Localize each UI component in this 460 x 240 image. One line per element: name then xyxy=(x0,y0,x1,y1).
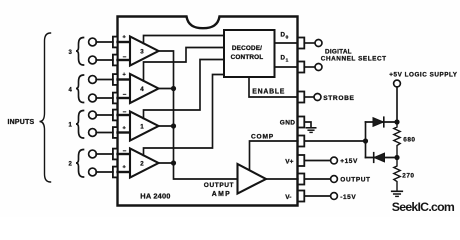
svg-text:2: 2 xyxy=(69,162,73,168)
wire decode to D1 pin xyxy=(275,66,298,68)
wire pin to amp 4 + xyxy=(118,78,131,80)
brace channel 1 xyxy=(76,111,84,139)
wire select line amp2 to decode xyxy=(144,75,225,156)
wire V- pin to terminal xyxy=(304,195,330,197)
terminal -15V xyxy=(331,193,338,200)
junction upper branch at resistor xyxy=(394,119,399,124)
wire input 3 bottom xyxy=(96,59,113,61)
op-amp IC HA 2400 package outline xyxy=(118,17,298,206)
svg-text:OUTPUT: OUTPUT xyxy=(340,177,370,184)
junction COMP clamp xyxy=(363,138,368,143)
svg-text:3: 3 xyxy=(140,49,144,56)
svg-text:4: 4 xyxy=(140,86,144,93)
wire COMP pin to clamp junction xyxy=(304,140,365,142)
ground at GND pin xyxy=(306,127,315,129)
wire +5V to clamp xyxy=(396,87,398,122)
svg-text:1: 1 xyxy=(140,124,144,131)
svg-text:DECODE/: DECODE/ xyxy=(232,45,262,52)
diode upper (to +5V) xyxy=(373,118,384,127)
svg-text:AMP: AMP xyxy=(212,191,231,198)
svg-text:+: + xyxy=(123,165,127,171)
svg-text:–: – xyxy=(123,54,127,61)
output amplifier xyxy=(238,164,267,194)
wire lower clamp branch xyxy=(366,157,398,159)
ground at divider bottom xyxy=(392,190,403,192)
junction lower branch at divider xyxy=(394,155,399,160)
svg-text:V-: V- xyxy=(285,194,291,201)
wire input 2 bottom xyxy=(96,171,113,173)
wire input 3 top xyxy=(96,41,113,43)
pin OUTPUT xyxy=(298,174,305,185)
svg-text:–: – xyxy=(123,109,127,116)
svg-text:ENABLE: ENABLE xyxy=(252,89,285,96)
svg-text:–: – xyxy=(123,148,127,155)
pin - input amp 1 xyxy=(113,110,118,121)
svg-text:CONTROL: CONTROL xyxy=(231,54,264,61)
terminal D0 xyxy=(315,40,322,47)
pin D0 xyxy=(298,38,305,49)
terminal OUTPUT xyxy=(331,176,338,183)
svg-text:GND: GND xyxy=(280,120,296,127)
pin - input amp 2 xyxy=(113,149,118,160)
op-amp 2 xyxy=(130,149,159,178)
input terminal circle 4 top xyxy=(89,76,97,84)
decode/control block U1 xyxy=(224,30,275,77)
pin GND xyxy=(298,117,305,128)
wire pin to amp 2 + xyxy=(118,171,131,173)
svg-text:1: 1 xyxy=(286,58,289,64)
resistor 680 xyxy=(394,122,400,158)
wire pin to amp 1 - xyxy=(118,114,131,116)
brace channel 3 xyxy=(76,38,84,66)
wire pin to amp 1 + xyxy=(118,131,131,133)
svg-text:SeekIC.com: SeekIC.com xyxy=(392,200,455,214)
svg-text:2: 2 xyxy=(140,161,144,168)
svg-text:680: 680 xyxy=(403,137,415,144)
wire input 1 top xyxy=(96,114,113,116)
input terminal circle 2 top xyxy=(89,150,97,158)
wire D0 pin to terminal xyxy=(304,42,315,44)
pin + input amp 3 xyxy=(113,37,118,48)
pin - input amp 4 xyxy=(113,93,118,104)
svg-text:+15V: +15V xyxy=(340,158,358,165)
brace channel 2 xyxy=(76,150,84,178)
wire input 4 top xyxy=(96,79,113,81)
diode lower (from divider) xyxy=(374,153,385,162)
input terminal circle 3 top xyxy=(89,38,97,46)
pin + input amp 4 xyxy=(113,74,118,85)
wire amp1 output xyxy=(159,125,174,127)
pin + input amp 1 xyxy=(113,127,118,138)
input terminal circle 1 top xyxy=(89,111,97,119)
pin COMP xyxy=(298,136,305,147)
svg-text:V+: V+ xyxy=(285,158,293,165)
terminal +5V supply xyxy=(394,80,401,87)
svg-text:HA 2400: HA 2400 xyxy=(140,191,170,200)
wire STROBE pin to terminal xyxy=(304,96,314,98)
svg-text:OUTPUT: OUTPUT xyxy=(204,182,234,189)
op-amp 4 xyxy=(130,74,159,103)
svg-text:+: + xyxy=(123,72,127,78)
wire select line amp1 to decode xyxy=(144,60,225,119)
svg-text:1: 1 xyxy=(69,123,73,129)
svg-text:3: 3 xyxy=(69,50,73,56)
wire upper clamp branch xyxy=(366,121,398,123)
wire pin to amp 4 - xyxy=(118,97,131,99)
wire pin to amp 3 - xyxy=(118,59,131,61)
svg-text:+5V LOGIC SUPPLY: +5V LOGIC SUPPLY xyxy=(389,72,457,79)
pin V+ xyxy=(298,155,305,166)
svg-text:270: 270 xyxy=(402,173,414,180)
wire select line amp3 to decode xyxy=(144,36,225,44)
wire amp4 output xyxy=(159,88,174,90)
wire enable xyxy=(249,77,298,97)
svg-text:DIGITAL: DIGITAL xyxy=(325,48,352,55)
wire clamp left vertical xyxy=(365,122,367,158)
brace channel 4 xyxy=(76,75,84,103)
terminal +15V xyxy=(331,157,338,164)
svg-text:+: + xyxy=(123,126,127,132)
op-amp 3 xyxy=(130,37,159,66)
junction amp2 output xyxy=(171,160,176,165)
wire V+ pin to terminal xyxy=(304,160,330,162)
svg-text:–: – xyxy=(123,91,127,98)
wire input 2 top xyxy=(96,153,113,155)
svg-text:+: + xyxy=(123,35,127,41)
wire GND pin to ground xyxy=(304,122,311,128)
svg-text:STROBE: STROBE xyxy=(323,95,354,102)
wire comp tap from output amp xyxy=(250,141,298,170)
input terminal circle 3 bottom xyxy=(89,56,97,64)
svg-text:CHANNEL SELECT: CHANNEL SELECT xyxy=(321,55,387,62)
pin V- xyxy=(298,191,305,202)
pin - input amp 3 xyxy=(113,55,118,66)
junction amp4 output xyxy=(171,86,176,91)
terminal D1 xyxy=(315,64,322,71)
wire input 4 bottom xyxy=(96,97,113,99)
input terminal circle 1 bottom xyxy=(89,129,97,137)
pin STROBE xyxy=(298,92,305,103)
wire output amp to OUTPUT pin xyxy=(266,178,298,180)
pin D1 xyxy=(298,62,305,73)
wire amp3 output to bus xyxy=(159,51,238,179)
wire pin to amp 3 + xyxy=(118,41,131,43)
wire OUTPUT pin to terminal xyxy=(304,178,330,180)
wire select line amp4 to decode xyxy=(144,48,225,81)
svg-text:-15V: -15V xyxy=(340,194,356,201)
svg-text:COMP: COMP xyxy=(251,133,274,140)
wire decode to D0 pin xyxy=(275,42,298,44)
resistor 270 xyxy=(394,158,400,192)
svg-text:0: 0 xyxy=(286,34,289,40)
wire pin to amp 2 - xyxy=(118,153,131,155)
svg-text:4: 4 xyxy=(69,88,73,94)
terminal STROBE xyxy=(314,94,321,101)
brace INPUTS xyxy=(40,33,51,182)
wire amp2 output xyxy=(159,162,174,164)
wire D1 pin to terminal xyxy=(304,66,315,68)
input terminal circle 4 bottom xyxy=(89,94,97,102)
wire input 1 bottom xyxy=(96,132,113,134)
pin + input amp 2 xyxy=(113,167,118,178)
junction amp1 output xyxy=(171,123,176,128)
op-amp 1 xyxy=(130,112,159,141)
input terminal circle 2 bottom xyxy=(89,168,97,176)
svg-text:INPUTS: INPUTS xyxy=(8,119,35,126)
